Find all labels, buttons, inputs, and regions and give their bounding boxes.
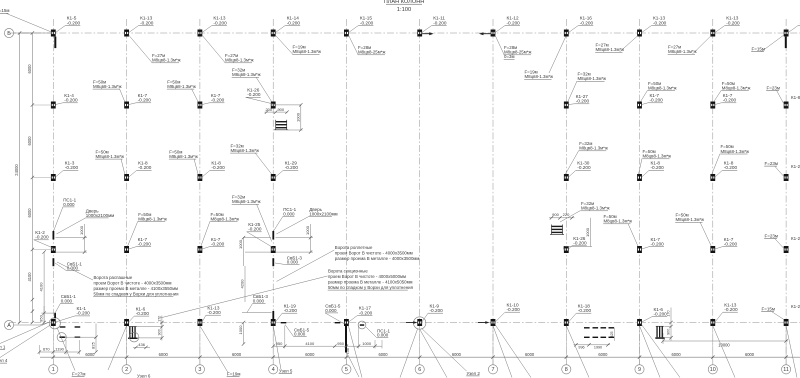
- svg-text:-0.200: -0.200: [211, 98, 225, 103]
- svg-text:0.000: 0.000: [283, 211, 295, 216]
- svg-text:Узел 4: Узел 4: [0, 358, 8, 363]
- svg-text:4: 4: [272, 367, 275, 373]
- svg-text:6000: 6000: [85, 352, 95, 357]
- svg-text:-0.200: -0.200: [35, 235, 49, 240]
- svg-text:170: 170: [667, 310, 671, 316]
- svg-text:1000: 1000: [585, 227, 590, 237]
- svg-text:-0.200: -0.200: [578, 308, 592, 313]
- svg-text:М8цв8-1.3м*ж: М8цв8-1.3м*ж: [525, 74, 554, 79]
- svg-text:проем Ворот В чистоте - 4000: проем Ворот В чистоте - 4000х3500мм: [94, 280, 172, 285]
- svg-text:1:100: 1:100: [397, 7, 412, 13]
- svg-text:-0.200: -0.200: [64, 98, 78, 103]
- svg-text:Ворота роллетные: Ворота роллетные: [335, 245, 373, 250]
- svg-text:-0.200: -0.200: [359, 310, 373, 315]
- svg-text:-0.200: -0.200: [138, 165, 152, 170]
- svg-text:6000: 6000: [232, 352, 242, 357]
- svg-text:А: А: [7, 323, 11, 329]
- svg-text:-0.200: -0.200: [651, 165, 665, 170]
- svg-text:900: 900: [277, 107, 284, 112]
- svg-text:К1-8: К1-8: [791, 95, 800, 100]
- svg-text:-0.200: -0.200: [287, 20, 301, 25]
- svg-text:-0.200: -0.200: [65, 165, 79, 170]
- svg-text:6000: 6000: [452, 352, 462, 357]
- svg-text:М8цв8-1.3м*ж: М8цв8-1.3м*ж: [169, 154, 198, 159]
- svg-text:4200: 4200: [239, 279, 244, 289]
- svg-text:-0.200: -0.200: [285, 165, 299, 170]
- svg-text:8: 8: [565, 367, 568, 373]
- svg-text:Узел 1: Узел 1: [0, 345, 6, 350]
- svg-text:-0.200: -0.200: [138, 242, 152, 247]
- svg-text:-0.200: -0.200: [507, 307, 521, 312]
- svg-text:0.000: 0.000: [287, 260, 299, 265]
- svg-text:1000х2100мм: 1000х2100мм: [309, 211, 337, 216]
- svg-text:-0.200: -0.200: [576, 99, 590, 104]
- svg-text:М8цв8-1.3м*ж: М8цв8-1.3м*ж: [578, 76, 607, 81]
- svg-text:-0.200: -0.200: [724, 165, 738, 170]
- svg-text:996: 996: [578, 345, 584, 349]
- svg-text:Узел 5: Узел 5: [279, 369, 293, 374]
- svg-text:-0.200: -0.200: [430, 308, 444, 313]
- svg-text:1000: 1000: [362, 341, 372, 346]
- svg-text:-0.200: -0.200: [248, 227, 262, 232]
- svg-text:-0.200: -0.200: [651, 242, 665, 247]
- svg-text:-0.200: -0.200: [654, 312, 668, 317]
- svg-text:825: 825: [610, 331, 614, 337]
- svg-text:6000: 6000: [745, 352, 755, 357]
- svg-text:Ворота секционные: Ворота секционные: [328, 269, 368, 274]
- svg-text:6000: 6000: [598, 352, 608, 357]
- svg-text:Узел 6: Узел 6: [137, 373, 151, 378]
- svg-text:1000: 1000: [295, 112, 300, 122]
- svg-text:М8цв8-1.3м*ж: М8цв8-1.3м*ж: [579, 146, 608, 151]
- svg-text:М8цв8-1.3м*ж: М8цв8-1.3м*ж: [211, 216, 240, 221]
- svg-text:М8цв8-1.3м*ж: М8цв8-1.3м*ж: [722, 85, 751, 90]
- svg-text:7: 7: [492, 367, 495, 373]
- svg-text:F=23м: F=23м: [765, 233, 778, 238]
- svg-text:6000: 6000: [27, 136, 32, 146]
- svg-text:F=15м: F=15м: [762, 307, 775, 312]
- svg-text:1000: 1000: [79, 225, 84, 235]
- svg-text:4100: 4100: [39, 282, 44, 292]
- svg-text:1000: 1000: [305, 225, 310, 235]
- svg-text:Ворота распашные: Ворота распашные: [94, 275, 133, 280]
- svg-text:-0.200: -0.200: [724, 242, 738, 247]
- svg-text:М8цв8-1.3м*ж: М8цв8-1.3м*ж: [96, 154, 125, 159]
- svg-text:5: 5: [345, 367, 348, 373]
- svg-text:1000х2100мм: 1000х2100мм: [86, 213, 114, 218]
- svg-text:М8цв8-25м*ж: М8цв8-25м*ж: [358, 50, 385, 55]
- svg-text:1000: 1000: [238, 239, 243, 249]
- svg-text:0.000: 0.000: [294, 332, 306, 337]
- svg-text:2: 2: [125, 367, 128, 373]
- svg-text:900: 900: [157, 329, 161, 335]
- svg-text:F=15м: F=15м: [752, 47, 765, 52]
- svg-text:436: 436: [138, 342, 145, 347]
- svg-text:М8цв8-1.3м*ж: М8цв8-1.3м*ж: [648, 85, 677, 90]
- svg-text:-0.200: -0.200: [247, 92, 261, 97]
- svg-text:6000: 6000: [305, 352, 315, 357]
- svg-text:50мм по спадком у Ворхи для уп: 50мм по спадком у Ворхи для уплотнения: [94, 291, 180, 296]
- svg-text:-0.200: -0.200: [284, 308, 298, 313]
- svg-text:F=15м: F=15м: [0, 8, 9, 13]
- svg-text:900: 900: [552, 212, 559, 217]
- svg-text:М8цв8-1.3м*ж: М8цв8-1.3м*ж: [138, 216, 167, 221]
- svg-text:М8цв8-1.3м*ж: М8цв8-1.3м*ж: [643, 154, 672, 159]
- svg-text:1: 1: [52, 367, 55, 373]
- svg-text:-0.200: -0.200: [140, 20, 154, 25]
- svg-text:24000: 24000: [14, 164, 19, 176]
- svg-text:М8цв8-1.3м*ж: М8цв8-1.3м*ж: [293, 49, 322, 54]
- svg-text:950: 950: [39, 314, 44, 321]
- svg-text:6000: 6000: [159, 352, 169, 357]
- svg-text:6000: 6000: [672, 352, 682, 357]
- svg-text:4100: 4100: [27, 272, 32, 282]
- svg-text:К1-2: К1-2: [791, 164, 800, 169]
- svg-text:Б: Б: [7, 31, 11, 37]
- svg-text:-0.200: -0.200: [213, 20, 227, 25]
- svg-text:9: 9: [638, 367, 641, 373]
- svg-text:-0.200: -0.200: [653, 20, 667, 25]
- svg-text:размер проемо В металле - 41: размер проемо В металле - 4100х3550мм: [94, 286, 179, 291]
- svg-text:К1-2: К1-2: [791, 236, 800, 241]
- svg-text:-0.200: -0.200: [138, 98, 152, 103]
- svg-text:1100: 1100: [346, 347, 350, 354]
- svg-text:М8цв8-1.3м*ж: М8цв8-1.3м*ж: [93, 84, 122, 89]
- svg-text:200: 200: [265, 107, 272, 112]
- svg-text:Узел 2: Узел 2: [467, 371, 481, 376]
- svg-text:-0.200: -0.200: [433, 20, 447, 25]
- svg-text:50мм по спадком у Ворхи для уп: 50мм по спадком у Ворхи для уплотнения: [328, 285, 414, 290]
- svg-text:М8цв8-1.3м*ж: М8цв8-1.3м*ж: [668, 49, 697, 54]
- svg-text:-0.200: -0.200: [580, 20, 594, 25]
- svg-text:М8цв8-1.3м*ж: М8цв8-1.3м*ж: [167, 84, 196, 89]
- svg-text:0=3м: 0=3м: [504, 54, 514, 59]
- svg-text:М8цв8-1.3м*ж: М8цв8-1.3м*ж: [604, 219, 633, 224]
- svg-text:670: 670: [43, 347, 50, 352]
- svg-text:900: 900: [667, 329, 671, 335]
- svg-text:F=19м: F=19м: [227, 372, 240, 377]
- svg-text:0.000: 0.000: [377, 333, 389, 338]
- svg-text:6000: 6000: [27, 64, 32, 74]
- svg-text:170: 170: [157, 316, 161, 322]
- svg-text:0.000: 0.000: [61, 298, 73, 303]
- svg-text:6000: 6000: [27, 208, 32, 218]
- svg-text:6: 6: [418, 367, 421, 373]
- svg-text:F=23м: F=23м: [765, 161, 778, 166]
- svg-text:6000: 6000: [525, 352, 535, 357]
- svg-text:М8цв8-1.3м*ж: М8цв8-1.3м*ж: [225, 58, 254, 63]
- svg-text:0.000: 0.000: [63, 202, 75, 207]
- svg-text:-0.200: -0.200: [207, 310, 221, 315]
- svg-text:-0.200: -0.200: [723, 98, 737, 103]
- svg-text:0.000: 0.000: [253, 299, 265, 304]
- svg-text:10: 10: [710, 367, 716, 373]
- svg-text:0.000: 0.000: [325, 308, 337, 313]
- svg-text:1000: 1000: [238, 325, 243, 335]
- svg-text:-0.200: -0.200: [573, 241, 587, 246]
- svg-text:F=27м: F=27м: [72, 372, 85, 377]
- svg-text:М8цв8-1.3м*ж: М8цв8-1.3м*ж: [231, 148, 260, 153]
- svg-text:220: 220: [563, 212, 570, 217]
- svg-text:размер проема В металле - 40: размер проема В металле - 4000х3500мм: [335, 256, 420, 261]
- svg-text:-0.200: -0.200: [211, 165, 225, 170]
- svg-text:1990: 1990: [594, 345, 602, 349]
- svg-text:-0.200: -0.200: [724, 307, 738, 312]
- svg-text:-0.200: -0.200: [507, 20, 521, 25]
- svg-text:-0.200: -0.200: [726, 20, 740, 25]
- svg-text:-0.200: -0.200: [211, 242, 225, 247]
- svg-text:-0.200: -0.200: [650, 98, 664, 103]
- svg-text:-0.200: -0.200: [136, 311, 150, 316]
- svg-text:825: 825: [91, 341, 96, 348]
- svg-text:М8цв8-1.3м*ж: М8цв8-1.3м*ж: [232, 72, 261, 77]
- svg-text:F=23м: F=23м: [767, 85, 780, 90]
- svg-text:950: 950: [337, 341, 344, 346]
- svg-text:проем Ворот В чистоте - 4000: проем Ворот В чистоте - 4000х3500мм: [335, 250, 413, 255]
- svg-text:проем Ворот В чистоте - 4000: проем Ворот В чистоте - 4000х5000мм: [328, 274, 406, 279]
- svg-text:М8цв8-1.3м*ж: М8цв8-1.3м*ж: [721, 149, 750, 154]
- svg-text:М8цв8-1.3м*ж: М8цв8-1.3м*ж: [152, 58, 181, 63]
- svg-text:11: 11: [783, 367, 789, 373]
- svg-text:4100: 4100: [305, 341, 315, 346]
- svg-text:-0.200: -0.200: [67, 20, 81, 25]
- svg-text:К1-2: К1-2: [791, 304, 800, 309]
- svg-text:-0.200: -0.200: [360, 20, 374, 25]
- svg-text:1190: 1190: [55, 347, 64, 352]
- svg-text:размер проема В металле - 41: размер проема В металле - 4100х5050мм: [328, 279, 413, 284]
- svg-text:М8цв8-1.3м*ж: М8цв8-1.3м*ж: [232, 199, 261, 204]
- svg-text:М8цв8-1.3м*ж: М8цв8-1.3м*ж: [581, 206, 610, 211]
- svg-text:6000: 6000: [378, 352, 388, 357]
- svg-text:М8цв8-1.3м*ж: М8цв8-1.3м*ж: [676, 217, 705, 222]
- svg-text:-0.200: -0.200: [577, 165, 591, 170]
- svg-text:3: 3: [198, 367, 201, 373]
- svg-text:-0.200: -0.200: [77, 311, 91, 316]
